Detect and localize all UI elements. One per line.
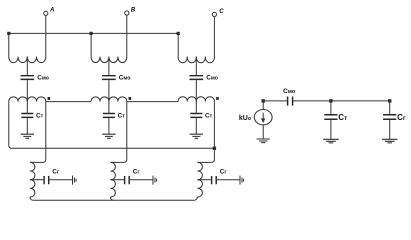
polarity mark secondary W3s (216, 97, 218, 99)
wire Cmo2 to secondary tap (108, 80, 110, 113)
capacitor Cmo1 (21, 76, 35, 80)
terminal circle phase C (212, 12, 216, 16)
wire source bottom lead (262, 125, 264, 139)
inductor tertiary winding W3t (197, 162, 202, 197)
capacitor Cmo2 (102, 76, 116, 80)
capacitor Ct1 (21, 114, 33, 118)
capacitor Cmo eq (288, 97, 293, 106)
wire Ct1 to ground (26, 118, 28, 134)
wire W1t tap to Cg (30, 179, 44, 181)
terminal circle phase A (44, 11, 48, 15)
ground right of Cg2 (153, 176, 157, 185)
svg-text:Сг: Сг (220, 168, 228, 175)
junction Ct eq dot (329, 99, 332, 102)
svg-text:Смо: Смо (119, 75, 131, 82)
wire source top lead (262, 101, 264, 110)
capacitor Cmo3 (190, 76, 204, 80)
source U1 circle (254, 110, 272, 125)
wire primary W3 tap to Cmo (195, 57, 197, 75)
wire top to Cmo eq (263, 100, 287, 102)
ground under Ct3 (190, 134, 203, 138)
svg-text:Ст: Ст (338, 113, 347, 122)
ground under Cт eq (323, 139, 339, 143)
wire primary W2 left post (90, 33, 92, 56)
wire bottom common line (30, 197, 198, 200)
wire top bus (9, 32, 178, 34)
wire down to Cт eq (330, 101, 332, 115)
wire phase A lead (45, 15, 47, 56)
inductor primary winding W2 (91, 57, 127, 63)
wire corner 3 down to tertiary W3t (197, 102, 214, 163)
junction bus dot 2 (90, 32, 93, 35)
wire Cт eq to ground (330, 120, 332, 139)
inductor tertiary winding W1t (30, 162, 35, 197)
svg-text:Ст: Ст (205, 113, 213, 120)
polarity mark secondary W1s (48, 97, 50, 99)
junction source top dot (262, 99, 265, 102)
wire Cg3 to ground (217, 179, 240, 181)
wire delta link W1s-W2s (46, 101, 91, 103)
wire phase C lead (213, 17, 215, 57)
wire corner 1 down to tertiary W1t (30, 102, 46, 163)
svg-text:Ст: Ст (36, 113, 44, 120)
wire Cmo eq to Cg node (293, 100, 390, 102)
wire W1s left end down (9, 102, 215, 149)
ground under Ct2 (102, 134, 115, 138)
ground right of Cg1 (73, 176, 77, 185)
wire primary W3 left post (177, 33, 179, 56)
wire corner 2 down to tertiary W2t (110, 102, 126, 163)
svg-text:Смо: Смо (37, 75, 49, 82)
wire phase B lead (126, 15, 128, 57)
wire Cг eq to ground (389, 120, 391, 139)
wire primary W1 left post (8, 33, 10, 56)
source U1 arrow (262, 113, 265, 122)
junction Cg eq dot (388, 99, 391, 102)
wire W3t tap to Cg (197, 179, 211, 181)
ground right of Cg3 (240, 176, 244, 185)
inductor tertiary winding W2t (110, 162, 115, 197)
inductor primary winding W3 (178, 57, 214, 63)
wire down to Cг eq (389, 101, 391, 115)
svg-text:kUо: kUо (239, 115, 251, 122)
svg-text:Ст: Ст (118, 113, 126, 120)
capacitor Cт eq (324, 115, 337, 119)
wire Cmo1 to secondary tap (26, 80, 28, 113)
capacitor Cг eq (383, 115, 396, 119)
ground under Ct1 (21, 134, 34, 138)
wire W2t bottom corner (110, 197, 113, 200)
wire Cmo3 to secondary tap (195, 80, 197, 113)
inductor secondary winding W2s (91, 97, 127, 102)
inductor primary winding W1 (9, 57, 46, 63)
junction node N dot (213, 147, 216, 150)
wire Cg1 to ground (49, 179, 72, 181)
svg-text:B: B (131, 7, 136, 13)
polarity mark secondary W2s (129, 97, 131, 99)
inductor secondary winding W3s (178, 97, 214, 102)
svg-text:A: A (49, 8, 54, 14)
capacitor Cg3 (212, 176, 217, 184)
wire delta link W2s-W3s (127, 101, 178, 103)
wire primary W1 tap to Cmo (26, 57, 28, 75)
terminal circle phase B (125, 11, 129, 15)
capacitor Cg1 (44, 176, 49, 184)
svg-text:Сг: Сг (133, 168, 141, 175)
junction bus dot 1 (7, 32, 10, 35)
wire Ct3 to ground (195, 118, 197, 134)
ground under Cг eq (382, 139, 398, 143)
capacitor Ct2 (103, 114, 115, 118)
svg-text:Сг: Сг (397, 113, 406, 122)
wire Cg2 to ground (130, 179, 153, 181)
capacitor Cg2 (125, 176, 130, 184)
wire Ct2 to ground (108, 118, 110, 134)
wire W2t tap to Cg (110, 179, 124, 181)
inductor secondary winding W1s (9, 97, 46, 102)
junction bus dot 3 (177, 32, 180, 35)
svg-text:C: C (219, 9, 224, 15)
svg-text:Смо: Смо (283, 88, 296, 95)
wire primary W2 tap to Cmo (108, 57, 110, 75)
svg-text:Смо: Смо (206, 75, 218, 82)
capacitor Ct3 (190, 114, 202, 118)
ground under source (257, 139, 270, 143)
svg-text:Сг: Сг (52, 168, 60, 175)
